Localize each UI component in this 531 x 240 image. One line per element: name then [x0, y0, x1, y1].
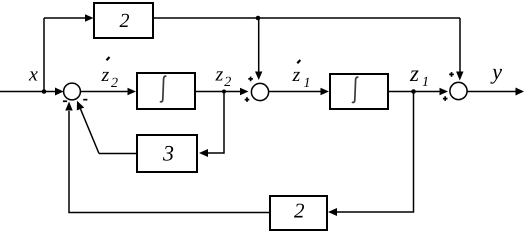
integral sign (integrator 1)	[160, 76, 166, 102]
svg-text:1: 1	[422, 75, 429, 90]
block: integrator 1	[137, 73, 195, 109]
arrowhead diagonal into S1	[77, 101, 84, 111]
derivative dot over z1	[297, 60, 300, 63]
wire: down from top junction to middle summer	[258, 18, 260, 72]
block: top gain 2	[94, 3, 153, 38]
arrowhead output y	[516, 88, 525, 96]
sign plus (S2 lower-left)	[245, 97, 250, 102]
svg-text:x: x	[28, 64, 38, 86]
arrowhead down into middle summer	[255, 72, 262, 81]
sign plus (S3 upper-left)	[449, 72, 454, 77]
wire: integrator 1 output to middle summer	[195, 91, 241, 93]
wire: top horizontal into gain block 2	[44, 17, 86, 19]
wire: integrator 2 output to output summer	[388, 91, 440, 93]
node: z2 output junction	[222, 90, 226, 94]
arrowhead into gain 3	[199, 149, 208, 157]
svg-text:2: 2	[120, 10, 130, 32]
arrowhead into top gain block	[85, 14, 94, 22]
wire: junction up to top feedforward	[43, 18, 45, 92]
sign minus (S1 lower-right)	[83, 99, 87, 101]
wire: output y	[467, 91, 516, 93]
node: top line junction	[256, 16, 261, 21]
sign plus (S3 lower-left)	[443, 96, 448, 101]
sign minus (S1 lower-left)	[63, 100, 67, 102]
block: gain 3	[137, 135, 197, 172]
wire: diagonal feedback to S1	[81, 109, 100, 154]
wire: top gain output across to output summer	[153, 17, 460, 19]
summing junction S3	[450, 82, 467, 99]
svg-text:2: 2	[294, 199, 305, 223]
wire: S1 to integrator 1	[80, 91, 129, 93]
wire: z1 tap down to bottom gain 2	[337, 92, 414, 213]
svg-text:y: y	[490, 59, 502, 84]
wire: S2 to integrator 2	[269, 91, 322, 93]
wire: z2 tap down to gain 3	[208, 92, 224, 154]
summing junction S1	[64, 83, 81, 100]
block: bottom gain 2	[270, 196, 327, 230]
sign plus (S2 upper-left)	[248, 77, 253, 82]
svg-text:2: 2	[224, 75, 231, 90]
svg-text:z: z	[215, 64, 224, 86]
svg-text:z: z	[409, 61, 419, 86]
wire: bottom feedback left and up to S1	[69, 111, 270, 213]
wire: down from top line right corner to output summer	[459, 18, 461, 72]
svg-text:2: 2	[111, 76, 118, 91]
summing junction S2	[251, 83, 268, 100]
arrowhead into bottom gain 2	[328, 208, 337, 216]
block: integrator 2	[330, 74, 388, 109]
node: input junction	[42, 89, 47, 94]
svg-text:z: z	[292, 64, 301, 86]
wire: gain 3 output left	[99, 153, 137, 155]
arrowhead into integrator 2	[321, 88, 330, 96]
arrowhead down into output summer	[456, 72, 463, 81]
arrowhead into integrator 1	[128, 88, 137, 96]
wire: input x line	[0, 91, 56, 93]
arrowhead into output summer S3	[440, 88, 449, 96]
arrowhead up into S1 bottom	[65, 102, 72, 111]
svg-text:1: 1	[304, 76, 311, 91]
arrowhead into summer S1	[55, 88, 64, 96]
svg-text:z: z	[101, 64, 110, 86]
svg-text:3: 3	[162, 141, 174, 166]
node: z1 output junction	[411, 89, 416, 94]
integral sign (integrator 2)	[352, 77, 358, 102]
arrowhead into middle summer S2	[240, 88, 249, 96]
derivative dot over z2	[107, 57, 110, 60]
